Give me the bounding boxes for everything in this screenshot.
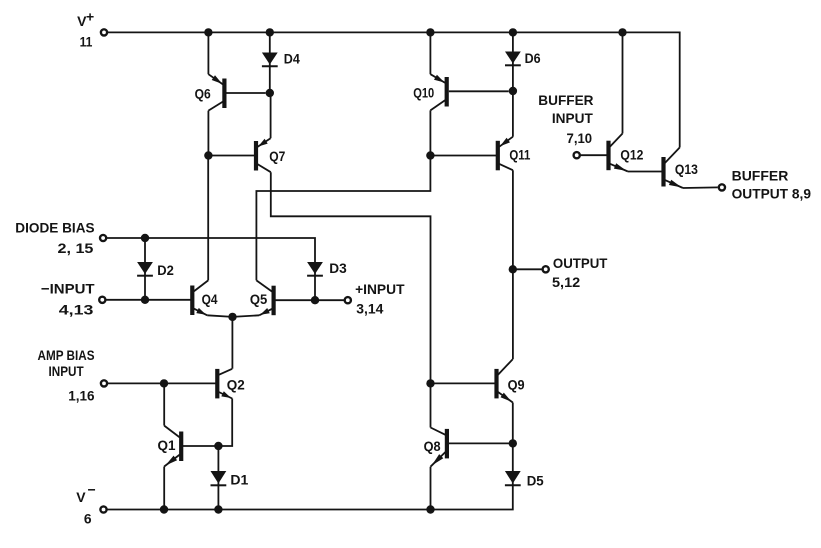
svg-text:1,16: 1,16	[68, 388, 95, 404]
svg-text:D1: D1	[230, 472, 248, 488]
svg-text:Q7: Q7	[269, 148, 285, 164]
svg-text:+: +	[86, 9, 94, 25]
svg-text:11: 11	[80, 34, 93, 50]
svg-text:−: −	[88, 482, 96, 498]
svg-text:Q10: Q10	[413, 84, 434, 100]
svg-text:Q9: Q9	[508, 377, 525, 393]
svg-text:Q1: Q1	[158, 437, 176, 453]
svg-text:Q8: Q8	[424, 438, 441, 454]
svg-text:BUFFER: BUFFER	[538, 92, 593, 108]
svg-text:AMP BIAS: AMP BIAS	[38, 347, 95, 363]
svg-text:INPUT: INPUT	[49, 363, 84, 379]
svg-text:OUTPUT 8,9: OUTPUT 8,9	[732, 185, 812, 201]
svg-text:−INPUT: −INPUT	[41, 281, 95, 297]
svg-text:Q5: Q5	[250, 291, 268, 307]
svg-text:7,10: 7,10	[567, 130, 593, 146]
svg-text:D6: D6	[525, 50, 541, 66]
svg-text:D2: D2	[157, 262, 174, 278]
svg-text:Q4: Q4	[202, 291, 218, 307]
svg-text:BUFFER: BUFFER	[732, 168, 789, 184]
svg-text:D3: D3	[329, 260, 347, 276]
svg-text:Q6: Q6	[195, 85, 211, 101]
svg-text:2, 15: 2, 15	[58, 240, 94, 256]
svg-text:+INPUT: +INPUT	[355, 281, 405, 297]
svg-text:6: 6	[84, 511, 92, 527]
svg-text:Q2: Q2	[227, 377, 245, 393]
svg-text:Q11: Q11	[509, 146, 530, 162]
svg-text:5,12: 5,12	[552, 274, 580, 290]
svg-text:Q13: Q13	[675, 161, 698, 177]
svg-text:OUTPUT: OUTPUT	[553, 255, 608, 271]
svg-text:DIODE BIAS: DIODE BIAS	[15, 219, 94, 235]
svg-text:3,14: 3,14	[356, 301, 383, 317]
svg-text:Q12: Q12	[620, 146, 643, 162]
svg-text:INPUT: INPUT	[552, 110, 593, 126]
svg-text:4,13: 4,13	[59, 302, 94, 318]
svg-text:V: V	[76, 489, 86, 505]
svg-text:D5: D5	[527, 472, 544, 488]
svg-text:D4: D4	[284, 51, 300, 67]
